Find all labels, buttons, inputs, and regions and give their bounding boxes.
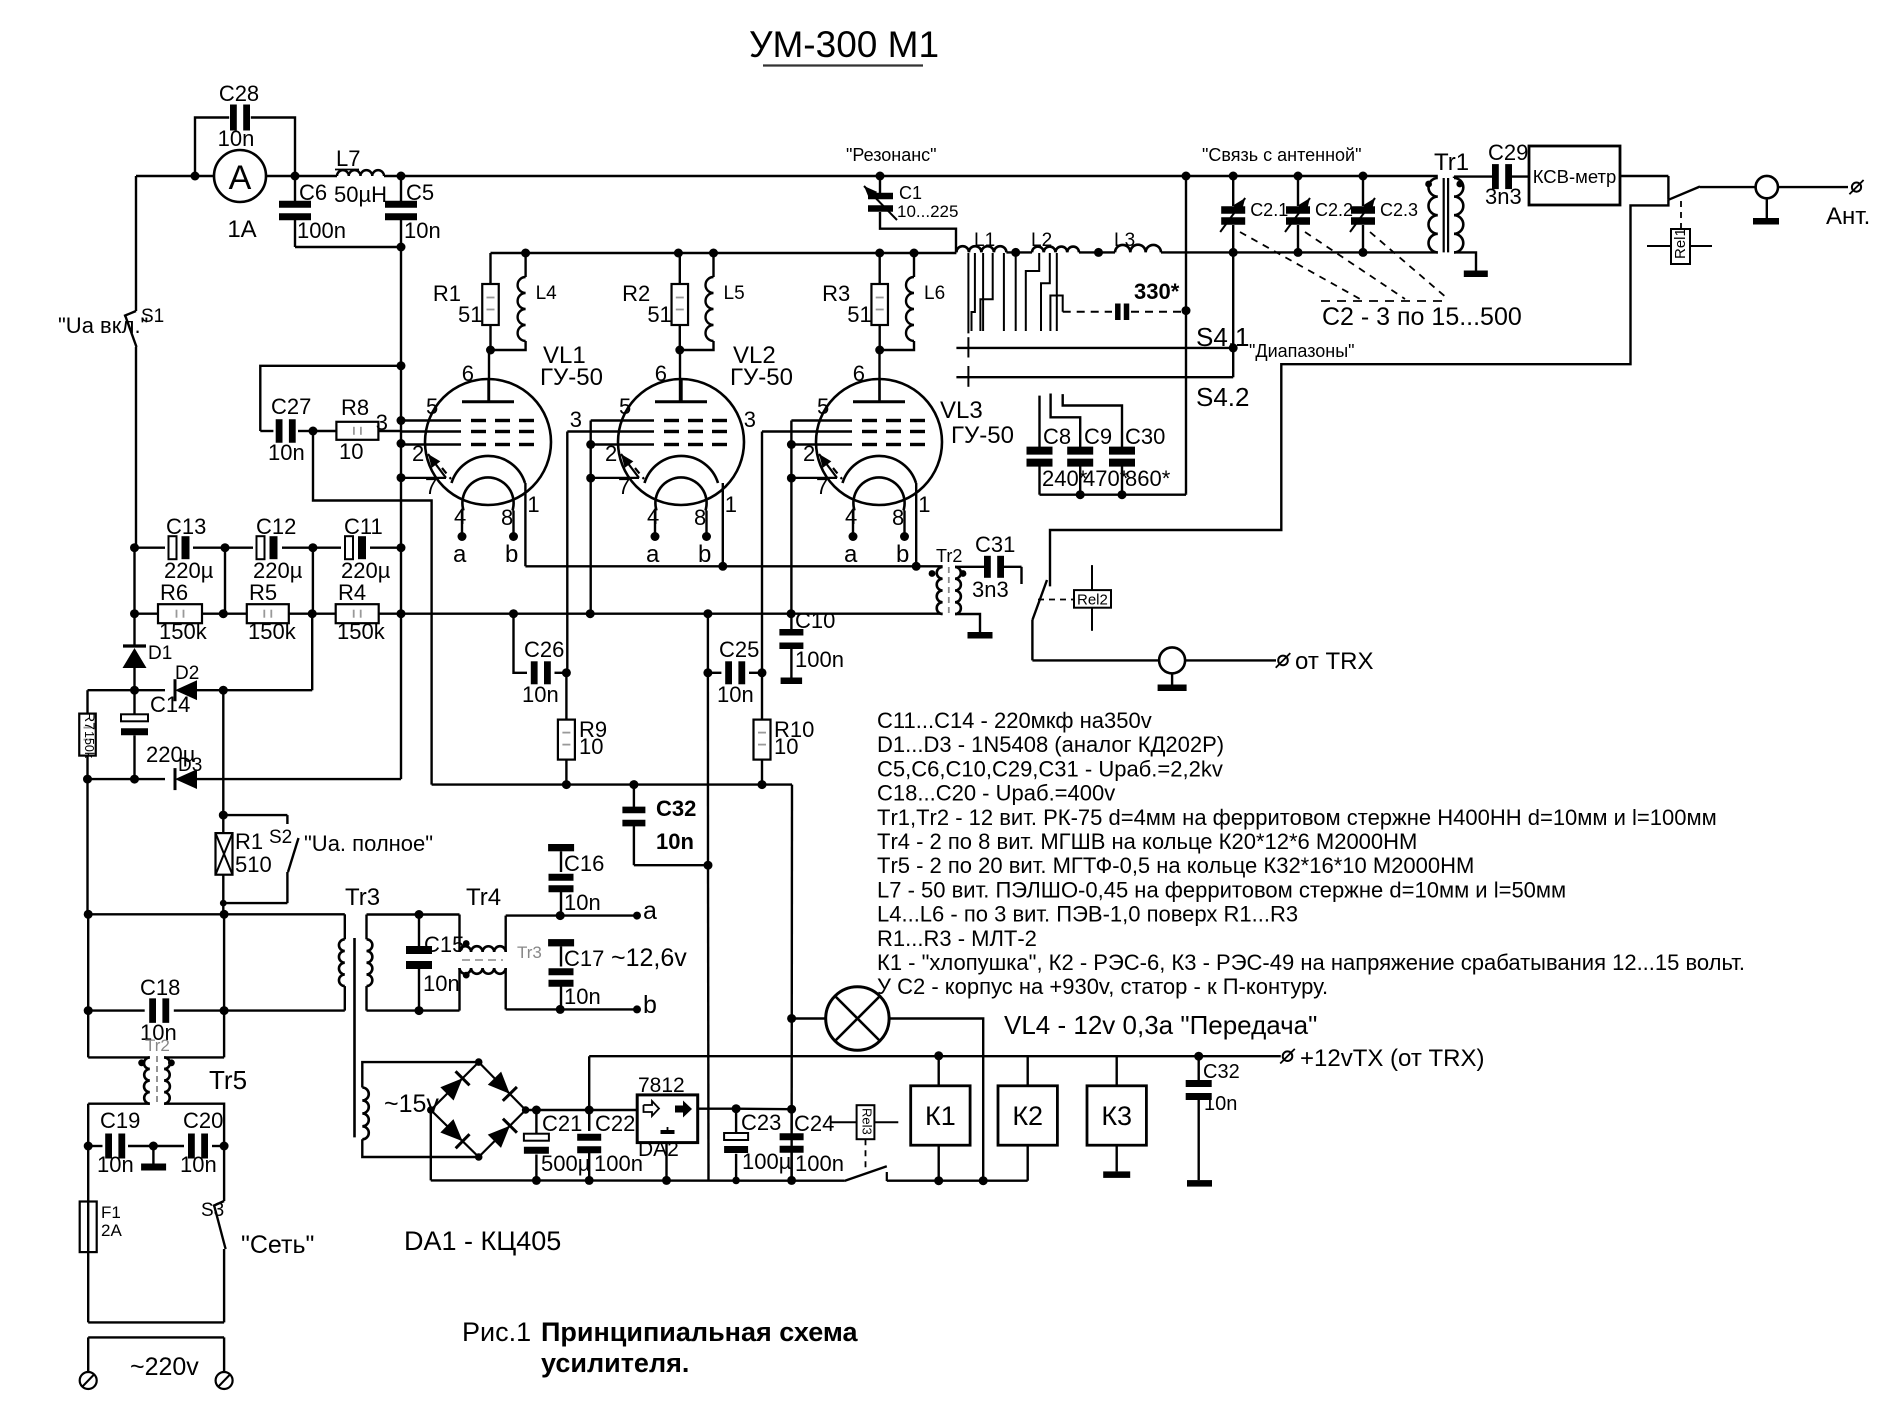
capacitor C32 10n [622, 785, 712, 870]
antenna changeover switch [1668, 176, 1755, 200]
svg-text:~12,6v: ~12,6v [611, 944, 687, 972]
svg-text:330*: 330* [1134, 279, 1180, 304]
resistor R9 10 [558, 673, 607, 789]
transformer Tr3 secondary 15v [362, 1062, 478, 1157]
variable capacitor C1 10...225 [864, 172, 958, 253]
svg-text:100n: 100n [594, 1151, 643, 1176]
svg-text:Тr4 - 2 по 8 вит. МГШВ на коль: Тr4 - 2 по 8 вит. МГШВ на кольце К20*12*… [877, 829, 1417, 854]
svg-text:3n3: 3n3 [972, 577, 1009, 602]
svg-text:220µ: 220µ [341, 558, 391, 583]
resistor R2 51 [622, 253, 688, 350]
svg-text:10n: 10n [656, 829, 694, 854]
inductor L1 [956, 230, 1006, 252]
transformer Tr3 primary [339, 884, 380, 1011]
svg-text:b: b [643, 991, 657, 1019]
svg-text:a: a [643, 897, 657, 925]
capacitor C22 100n [577, 1110, 643, 1185]
ground between C19 C20 [141, 1146, 166, 1171]
switch S1 Ua вкл [58, 176, 164, 548]
svg-text:L6: L6 [924, 283, 945, 304]
capacitor C6 [279, 176, 346, 247]
svg-text:8: 8 [694, 505, 706, 530]
svg-text:L1: L1 [974, 230, 995, 251]
parts list text block [877, 708, 1745, 999]
capacitor C30 860* [1063, 394, 1171, 495]
resistor R5 150k [247, 580, 297, 644]
svg-text:C27: C27 [271, 394, 311, 419]
resistor R10 10 [754, 673, 815, 789]
svg-text:8: 8 [892, 505, 904, 530]
svg-text:51: 51 [647, 302, 671, 327]
wire DA1 plus rail y=1110 [526, 1106, 638, 1115]
capacitor C31 3n3 [972, 532, 1022, 602]
svg-text:Tr2: Tr2 [936, 546, 962, 566]
transformer Tr1 [1425, 149, 1493, 271]
inductor L7 50uH [334, 146, 387, 207]
svg-text:С5,С6,С10,С29,С31 - Uраб.=2,2k: С5,С6,С10,С29,С31 - Uраб.=2,2kv [877, 756, 1223, 781]
svg-text:К3: К3 [1101, 1101, 1132, 1131]
svg-text:D3: D3 [178, 755, 202, 776]
svg-text:7: 7 [816, 474, 828, 499]
terminal +12vTX [1280, 1045, 1484, 1072]
vacuum tube VL3 ГУ-50 [762, 361, 1014, 568]
svg-text:C2.3: C2.3 [1380, 200, 1418, 220]
block КСВ-метр [1529, 146, 1668, 205]
svg-text:C5: C5 [406, 180, 434, 205]
svg-text:10n: 10n [522, 682, 559, 707]
svg-text:L7: L7 [336, 146, 360, 171]
svg-text:4: 4 [647, 504, 659, 529]
svg-text:Тr1,Тr2 - 12 вит. РК-75 d=4мм: Тr1,Тr2 - 12 вит. РК-75 d=4мм на феррито… [877, 805, 1717, 830]
svg-text:6: 6 [462, 361, 474, 386]
svg-text:1: 1 [918, 492, 930, 517]
resistor R6 150k [158, 580, 208, 644]
svg-text:"Связь с антенной": "Связь с антенной" [1202, 145, 1361, 165]
node ~12,6v label [611, 944, 687, 972]
capacitor C24 100n [780, 1105, 844, 1185]
inductor L5 [675, 249, 744, 355]
svg-text:3: 3 [744, 407, 756, 432]
dashed gang lines C2 [1240, 232, 1522, 331]
svg-text:C23: C23 [741, 1110, 781, 1135]
wire top bus y=176 left part [136, 175, 1438, 177]
svg-text:"Резонанс": "Резонанс" [846, 145, 937, 165]
inductor L6 [875, 249, 945, 355]
svg-text:УМ-300 М1: УМ-300 М1 [749, 24, 939, 65]
svg-text:"Сеть": "Сеть" [241, 1231, 314, 1259]
svg-text:150k: 150k [248, 619, 297, 644]
svg-text:2A: 2A [101, 1221, 122, 1240]
svg-text:C22: C22 [595, 1111, 635, 1136]
relay K2 [998, 1056, 1057, 1181]
svg-text:R1: R1 [433, 281, 461, 306]
svg-text:КСВ-метр: КСВ-метр [1533, 166, 1617, 187]
svg-text:C30: C30 [1125, 424, 1165, 449]
svg-text:Tr2: Tr2 [145, 1036, 170, 1055]
svg-text:10n: 10n [564, 890, 601, 915]
svg-text:С2 - 3 по 15...500: С2 - 3 по 15...500 [1322, 303, 1522, 331]
relay K3 [1087, 1056, 1146, 1171]
capacitor C19 10n [84, 1108, 158, 1177]
capacitor C16 10n with ground bar [548, 844, 604, 916]
svg-text:10...225: 10...225 [897, 202, 958, 221]
node Связь с антенной label [1202, 145, 1361, 165]
svg-text:150k: 150k [337, 619, 386, 644]
svg-text:3: 3 [570, 407, 582, 432]
svg-text:C9: C9 [1084, 424, 1112, 449]
svg-text:C29: C29 [1488, 140, 1528, 165]
svg-text:C13: C13 [166, 514, 206, 539]
svg-text:5: 5 [426, 394, 438, 419]
capacitor C9 470* [1051, 394, 1129, 495]
antenna feed circle [1756, 176, 1848, 218]
svg-text:100n: 100n [795, 647, 844, 672]
wire grid bus x=402 [397, 247, 406, 779]
svg-text:"Диапазоны": "Диапазоны" [1249, 341, 1355, 361]
svg-text:L7 - 50 вит. ПЭЛШО-0,45 на фер: L7 - 50 вит. ПЭЛШО-0,45 на ферритовом ст… [877, 877, 1566, 902]
wire C6/C5 bottom join [295, 246, 401, 248]
svg-text:C28: C28 [219, 81, 259, 106]
svg-text:К1 - "хлопушка", К2 - РЭС-6, К: К1 - "хлопушка", К2 - РЭС-6, К3 - РЭС-49… [877, 950, 1745, 975]
wire grid bias drop x=313/432 [313, 431, 432, 785]
switch Rel3 contact in rail [844, 1166, 887, 1181]
svg-text:DA2: DA2 [638, 1138, 679, 1161]
svg-text:150k: 150k [82, 731, 96, 759]
svg-text:R3: R3 [822, 281, 850, 306]
svg-text:C31: C31 [975, 532, 1015, 557]
svg-text:5: 5 [817, 394, 829, 419]
svg-text:C32: C32 [656, 796, 696, 821]
node Диапазоны label [1249, 341, 1355, 361]
variable capacitor C2.2 [1285, 172, 1353, 253]
svg-text:C1: C1 [899, 183, 922, 203]
switch S3 Сеть [201, 1146, 314, 1322]
capacitor C11 220u [341, 514, 391, 583]
svg-text:~220v: ~220v [130, 1353, 199, 1381]
title УМ-300 М1 [749, 24, 939, 66]
wire left HV rail x=134.5 [130, 548, 139, 784]
band switch taps under L2 [1026, 253, 1063, 331]
wire pi-net output rail y=252 [1161, 248, 1438, 257]
svg-text:C19: C19 [100, 1108, 140, 1133]
svg-text:10n: 10n [423, 971, 460, 996]
inductor L2 [1031, 230, 1079, 252]
lamp VL4 [787, 987, 1317, 1185]
capacitor C27 [260, 366, 401, 465]
svg-text:усилителя.: усилителя. [541, 1348, 689, 1378]
svg-text:+12vTX (от TRX): +12vTX (от TRX) [1300, 1045, 1485, 1072]
capacitor C25 [703, 637, 766, 707]
svg-text:C12: C12 [256, 514, 296, 539]
svg-text:220µ: 220µ [164, 558, 214, 583]
terminal 220v right [216, 1372, 233, 1389]
svg-text:10n: 10n [404, 218, 441, 243]
terminal от TRX [1276, 648, 1374, 675]
capacitor C17 10n with ground bar [548, 939, 604, 1009]
wire L1-L2 [1006, 248, 1032, 257]
capacitor C32b 10n [1186, 1056, 1240, 1180]
svg-text:10: 10 [579, 734, 603, 759]
svg-text:a: a [453, 541, 467, 568]
wire pin6 R3 [878, 350, 880, 403]
svg-text:C11: C11 [344, 514, 383, 539]
svg-text:6: 6 [853, 361, 865, 386]
svg-text:10: 10 [339, 439, 363, 464]
svg-text:R5: R5 [249, 580, 277, 605]
svg-text:D1: D1 [148, 643, 172, 664]
svg-text:a: a [646, 541, 660, 568]
capacitor C14 220u [121, 692, 196, 767]
inductor L4 [486, 249, 557, 355]
svg-text:L4...L6 - по 3 вит. ПЭВ-1,0 по: L4...L6 - по 3 вит. ПЭВ-1,0 поверх R1...… [877, 902, 1298, 927]
svg-text:b: b [505, 541, 518, 568]
svg-text:4: 4 [845, 504, 857, 529]
svg-text:D2: D2 [175, 663, 199, 684]
svg-text:S4.2: S4.2 [1196, 382, 1250, 412]
wire pin6 R2 [679, 350, 681, 402]
svg-text:C10: C10 [795, 608, 835, 633]
svg-text:C6: C6 [299, 180, 327, 205]
switch S4.1 [956, 322, 1249, 358]
svg-text:R2: R2 [622, 281, 650, 306]
wire D2 node down to R1 [219, 690, 228, 819]
svg-text:Ант.: Ант. [1826, 203, 1870, 230]
svg-text:b: b [896, 541, 909, 568]
wire left rail to bottom section [84, 779, 93, 1057]
node ~220v label [130, 1353, 199, 1381]
ammeter PA 1A [214, 150, 266, 243]
svg-text:C25: C25 [719, 637, 759, 662]
svg-text:К1: К1 [925, 1101, 956, 1131]
svg-text:Rel1: Rel1 [1672, 228, 1689, 259]
relay K1 [911, 1056, 970, 1181]
svg-text:51: 51 [458, 302, 482, 327]
wire bottom PSU rail [431, 1176, 1028, 1185]
ground under от TRX circle [1158, 685, 1187, 692]
ground under antenna circle [1753, 218, 1779, 225]
svg-text:ГУ-50: ГУ-50 [951, 422, 1014, 449]
capacitor C10 100n [779, 608, 844, 684]
wire HV filter row y=548 [130, 543, 401, 614]
svg-text:510: 510 [235, 852, 272, 877]
svg-text:R4: R4 [338, 580, 366, 605]
capacitor C13 220u [164, 514, 214, 583]
svg-text:500µ: 500µ [541, 1151, 591, 1176]
svg-text:C32: C32 [1203, 1061, 1240, 1083]
capacitor 330* with dashed gang line [1063, 279, 1191, 320]
terminal 220v left [80, 1372, 97, 1389]
wire x=224 riser [223, 914, 225, 1057]
svg-text:C24: C24 [794, 1111, 834, 1136]
wire a-line [506, 897, 657, 925]
svg-text:C17: C17 [564, 946, 604, 971]
svg-text:10: 10 [774, 734, 798, 759]
feed circle от TRX [1159, 647, 1185, 684]
wire bias bus y=785 [432, 780, 792, 789]
svg-text:3: 3 [376, 410, 388, 435]
svg-text:Tr4: Tr4 [466, 884, 501, 911]
svg-text:C26: C26 [524, 637, 564, 662]
svg-text:10n: 10n [1204, 1093, 1237, 1115]
wire +12vTX rail [589, 1051, 1281, 1131]
regulator DA2 7812 [637, 1074, 791, 1161]
wire DA1 minus to rail [430, 1110, 432, 1180]
svg-text:от TRX: от TRX [1295, 648, 1373, 675]
resistor R4 150k [336, 580, 386, 644]
svg-text:1: 1 [527, 492, 539, 517]
capacitor C15 10n [406, 915, 464, 1011]
svg-text:C2.1: C2.1 [1250, 200, 1288, 220]
tube VL3 grid connections [744, 407, 796, 672]
svg-text:150k: 150k [159, 619, 208, 644]
svg-text:Принципиальная схема: Принципиальная схема [541, 1317, 859, 1347]
svg-text:Тr5 - 2 по 20 вит. МГТФ-0,5 на: Тr5 - 2 по 20 вит. МГТФ-0,5 на кольце К3… [877, 853, 1474, 878]
capacitor C26 [514, 614, 571, 707]
diode D3 line [83, 755, 401, 790]
wire bias drop x=792 [790, 785, 793, 1181]
transformer Tr3 secondary 1 [367, 910, 460, 1015]
wire x=708 long vertical [707, 614, 710, 1180]
capacitor C23 100u [724, 1109, 792, 1185]
svg-text:К2: К2 [1012, 1101, 1043, 1131]
svg-text:R6: R6 [160, 580, 188, 605]
svg-text:10n: 10n [218, 126, 255, 151]
svg-text:b: b [698, 541, 711, 568]
transformer Tr4 [460, 884, 542, 1011]
svg-text:C14: C14 [150, 692, 190, 717]
diode D1 [123, 643, 173, 668]
svg-text:50µH: 50µH [334, 182, 387, 207]
caption Рис.1 [462, 1317, 859, 1378]
resistor R1 51 [433, 253, 499, 350]
mains cord [88, 1322, 224, 1372]
svg-text:5: 5 [619, 394, 631, 419]
svg-text:У С2 - корпус на +930v, стато: У С2 - корпус на +930v, статор - к П-кон… [877, 974, 1328, 999]
capacitor C20 10n [153, 1108, 228, 1177]
svg-text:2: 2 [412, 441, 424, 466]
svg-text:R1...R3 - МЛТ-2: R1...R3 - МЛТ-2 [877, 926, 1037, 951]
wire L2-L3 [1079, 248, 1115, 257]
resistor R1 510 (with X) [216, 815, 272, 914]
relay switch Rel2 [1032, 565, 1111, 660]
svg-text:ГУ-50: ГУ-50 [730, 364, 793, 391]
svg-text:4: 4 [454, 504, 466, 529]
ground under C32b [1187, 1180, 1212, 1187]
resistor R3 51 [822, 253, 888, 350]
svg-text:51: 51 [847, 302, 871, 327]
relay Rel3 [831, 1105, 898, 1168]
svg-text:a: a [844, 541, 858, 568]
relay Rel1 [1647, 201, 1712, 264]
svg-text:"Uа. полное": "Uа. полное" [304, 831, 433, 856]
svg-text:Rel3: Rel3 [860, 1108, 875, 1135]
wire anode bus y=253 [491, 252, 957, 254]
wire top of PSU section y=914 [88, 910, 345, 919]
svg-text:F1: F1 [101, 1203, 121, 1222]
svg-text:1: 1 [725, 492, 737, 517]
ground under K3 [1103, 1171, 1130, 1178]
svg-text:C18: C18 [140, 975, 180, 1000]
svg-text:ГУ-50: ГУ-50 [540, 364, 603, 391]
svg-text:L5: L5 [724, 283, 745, 304]
svg-text:7: 7 [618, 474, 630, 499]
ground under Tr2 [968, 632, 993, 639]
tube VL1 grid connections [376, 410, 388, 435]
svg-text:R7: R7 [82, 712, 98, 730]
svg-text:220µ: 220µ [253, 558, 303, 583]
svg-text:Tr1: Tr1 [1434, 149, 1469, 176]
capacitor C21 500u [524, 1110, 591, 1185]
svg-text:860*: 860* [1125, 466, 1171, 491]
capacitor C12 220u [253, 514, 303, 583]
svg-text:Tr3: Tr3 [345, 884, 380, 911]
capacitor C28 [191, 81, 300, 181]
transformer Tr5 [88, 1036, 247, 1146]
wire to от TRX [1032, 659, 1276, 661]
svg-text:3n3: 3n3 [1485, 184, 1522, 209]
inductor L3 [1114, 230, 1161, 252]
svg-text:S4.1: S4.1 [1196, 322, 1250, 352]
svg-text:C8: C8 [1043, 424, 1071, 449]
wire riser x=1186 top bus to C8 rail [1182, 172, 1191, 494]
variable capacitor C2.1 [1220, 172, 1288, 253]
wire C8/C9/C30 bottom rail [1040, 490, 1187, 499]
svg-text:C21: C21 [542, 1111, 582, 1136]
svg-text:2: 2 [803, 441, 815, 466]
svg-text:D1...D3 - 1N5408 (аналог КД202: D1...D3 - 1N5408 (аналог КД202Р) [877, 732, 1224, 757]
svg-text:100n: 100n [297, 218, 346, 243]
svg-text:С11...С14 - 220мкф на350v: С11...С14 - 220мкф на350v [877, 708, 1152, 733]
transformer Tr3 core [353, 938, 356, 1137]
svg-text:Rel2: Rel2 [1077, 592, 1108, 609]
svg-text:VL4 - 12v 0,3а "Передача": VL4 - 12v 0,3а "Передача" [1004, 1010, 1317, 1040]
svg-text:2: 2 [605, 441, 617, 466]
svg-text:100n: 100n [795, 1151, 844, 1176]
wire DA2 ground pin [662, 1143, 671, 1185]
diode bridge DA1 [404, 1058, 561, 1256]
resistor R7 150k [79, 690, 98, 779]
switch S2 Ua полное [220, 815, 433, 906]
svg-text:8: 8 [501, 505, 513, 530]
capacitor C5 [385, 172, 441, 252]
vacuum tube VL2 ГУ-50 [567, 342, 793, 568]
wire cathode bus y=566 [525, 562, 920, 571]
ground under Tr1 [1464, 271, 1488, 278]
capacitor C8 240* [1027, 396, 1088, 495]
transformer Tr2 [916, 546, 985, 632]
svg-text:DA1 - КЦ405: DA1 - КЦ405 [404, 1226, 561, 1256]
svg-text:S3: S3 [201, 1200, 224, 1221]
svg-text:Рис.1: Рис.1 [462, 1317, 531, 1347]
svg-text:C16: C16 [564, 851, 604, 876]
capacitor C29 3n3 [1485, 140, 1529, 209]
wire screen bus y=614 [130, 609, 943, 618]
vacuum tube VL1 ГУ-50 [401, 342, 603, 568]
switch S4.2 [956, 252, 1249, 412]
svg-text:L2: L2 [1031, 230, 1052, 251]
svg-text:10n: 10n [268, 440, 305, 465]
svg-text:10n: 10n [97, 1152, 134, 1177]
svg-text:1А: 1А [227, 216, 256, 243]
svg-text:R8: R8 [341, 395, 369, 420]
svg-text:"Uа вкл.": "Uа вкл." [58, 313, 148, 338]
wire pin6 R1 [488, 350, 490, 402]
variable capacitor C2.3 [1350, 172, 1418, 253]
wire b-line [506, 991, 657, 1019]
svg-text:VL3: VL3 [940, 397, 983, 424]
fuse F1 2A [80, 1146, 123, 1322]
capacitor C18 10n [88, 975, 345, 1045]
